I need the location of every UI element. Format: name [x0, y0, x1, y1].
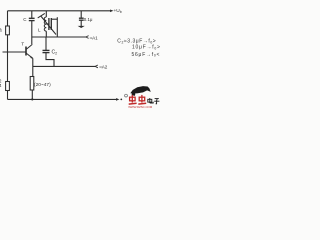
watermark small circle — [125, 94, 128, 97]
resistor Ra — [6, 26, 10, 35]
wire C2 top lead — [45, 37, 47, 50]
svg-text:(20~47): (20~47) — [34, 82, 51, 88]
arrowhead bottom rail — [116, 98, 120, 101]
terminal dot bottom rail — [120, 99, 122, 101]
arrowhead 0.1u lead down — [78, 26, 85, 28]
wire left vertical — [7, 11, 9, 100]
inductor L coil — [44, 17, 46, 31]
resistor Re emitter — [30, 77, 34, 91]
wire node A1 horizontal — [32, 36, 86, 38]
wire variable cap left lead — [46, 23, 49, 25]
svg-text:WWW.DZSC.COM: WWW.DZSC.COM — [128, 105, 153, 109]
variable adjustment arrow (trimmer T-bar) — [38, 13, 56, 34]
watermark chong glyph 2 — [138, 95, 146, 104]
resistor Rb — [6, 82, 10, 91]
wire emitter vertical — [32, 58, 34, 76]
svg-text:≈A1: ≈A1 — [90, 36, 99, 41]
wire bottom rail — [8, 98, 119, 100]
svg-text:56μF→f0<: 56μF→f0< — [132, 52, 161, 58]
svg-text:T: T — [21, 41, 24, 47]
transistor T — [26, 44, 33, 58]
svg-text:L: L — [38, 27, 41, 32]
svg-text:10μF→f0>: 10μF→f0> — [132, 45, 160, 51]
capacitor C2 plates — [43, 50, 50, 52]
arrowhead top rail — [110, 10, 114, 13]
wire collector/C branch vertical — [31, 11, 33, 18]
wire node A2 horizontal — [33, 65, 96, 67]
wire variable cap right lead and right branch — [51, 18, 57, 20]
wire tank left branch — [45, 11, 47, 17]
svg-text:a: a — [0, 28, 2, 34]
variable capacitor plates — [49, 18, 51, 30]
watermark hat icon — [130, 86, 151, 93]
arrowhead node A1 — [86, 36, 89, 39]
junction dot base/divider — [7, 51, 9, 53]
wire base stub — [3, 51, 27, 53]
capacitor 0.1u plates — [79, 18, 84, 20]
watermark chong glyph 1 — [129, 95, 137, 104]
junction dot emitter/bottom rail — [31, 98, 33, 100]
watermark hat band — [132, 93, 136, 96]
svg-text:≈A2: ≈A2 — [99, 65, 108, 70]
watermark zi glyph — [154, 99, 159, 104]
watermark dian glyph — [148, 98, 153, 103]
svg-text:0.1μ: 0.1μ — [84, 17, 93, 22]
capacitor C plates — [29, 18, 35, 20]
arrowhead node A2 — [95, 65, 98, 68]
wire 0.1u cap leads — [80, 11, 82, 18]
wire top rail +Ub — [8, 10, 113, 12]
wire C2 bottom lead jog — [46, 53, 54, 67]
